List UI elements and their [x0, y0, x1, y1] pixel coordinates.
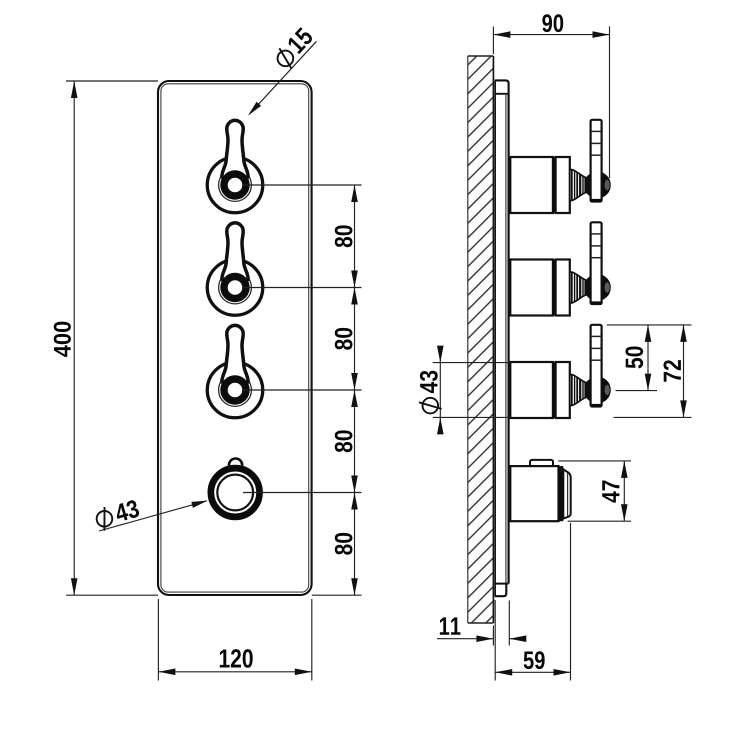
dim 50: extension lines — [607, 324, 692, 326]
dim dia43 (side): dimension line — [439, 347, 441, 434]
knob outer ring (front) — [211, 468, 260, 517]
cartridge band C2 — [553, 260, 556, 316]
cartridge cap C3 — [556, 362, 570, 418]
dim 400: extension lines — [66, 80, 158, 82]
ball B3 (side) — [584, 377, 610, 403]
plate front view outline — [158, 81, 312, 595]
dim 11: extension lines — [492, 626, 494, 646]
dim dia15 label — [272, 26, 317, 72]
dim 50: text — [625, 346, 643, 368]
dim 59: extension lines — [494, 600, 496, 681]
dim 11: dimension line + outside arrows — [437, 638, 493, 640]
knurl neck K1 (side) — [570, 170, 587, 201]
handle H1 ring — [224, 174, 246, 196]
dim dia15 leader — [250, 41, 317, 114]
lever bar L3 (side) — [591, 325, 602, 407]
handle H1 escutcheon circle — [207, 157, 263, 213]
knob disc fill — [208, 465, 263, 520]
cartridge body C1 (side) — [510, 157, 553, 213]
dim 50: dimension line — [647, 325, 649, 391]
handle H1 lever base thin circle — [219, 169, 252, 202]
dim 120: text — [220, 649, 253, 668]
lever bar L2 (side) — [591, 222, 602, 304]
plate side: bottom cap — [495, 584, 507, 597]
dim 400: dimension line — [73, 81, 75, 595]
dim 47: text — [602, 481, 619, 503]
handle H2 lever base thin circle — [219, 271, 252, 304]
knob inner thin circle (front) — [217, 475, 253, 511]
cartridge body C2 (side) — [510, 260, 553, 316]
handle H2 ring — [224, 277, 246, 299]
knob cap (side) — [563, 469, 570, 518]
handle H2 lever — [222, 223, 248, 280]
dim chain 80: texts — [335, 225, 353, 247]
ball B2 (side) — [584, 275, 610, 301]
dim 120: extension lines — [157, 599, 159, 681]
cartridge cap C2 — [556, 260, 570, 316]
handle H3 lever base thin circle — [219, 374, 252, 407]
plate front inner offset line — [161, 84, 309, 592]
handle H2 escutcheon circle — [207, 260, 263, 316]
dim 59: dimension line — [495, 671, 570, 673]
plate side: bottom step — [495, 583, 509, 585]
cartridge body C3 (side) — [510, 362, 553, 418]
knob dark band (side) — [559, 466, 564, 521]
knurl neck K2 (side) — [570, 272, 587, 303]
handle H3 lever — [222, 325, 248, 382]
dim 90: dimension line — [493, 34, 609, 36]
ball B1 (side) — [584, 172, 610, 198]
dim 90: text — [542, 14, 563, 32]
dim 120: dimension line — [158, 671, 311, 673]
plate side: inner thin line — [505, 94, 507, 584]
handle H3 ring — [224, 379, 246, 401]
dim dia43 (side): extension lines — [433, 362, 511, 364]
dim 72: dimension line — [683, 325, 685, 418]
cartridge band C1 — [553, 157, 556, 213]
plate side: top cap — [495, 80, 509, 93]
knob body (side) — [510, 466, 558, 521]
handle H3 escutcheon circle — [207, 362, 263, 418]
wall face line — [492, 56, 494, 623]
dim 72: text — [663, 360, 680, 382]
dim 72: extension line bottom — [614, 416, 692, 418]
dim 11: text — [440, 617, 461, 634]
dim dia43 (side): label — [419, 371, 442, 414]
wall section (hatched) — [468, 56, 494, 623]
plate side: back edge — [494, 80, 496, 596]
dim chain 80: extension lines from handle centers — [242, 184, 362, 186]
lever bar L1 (side) — [591, 120, 602, 202]
dim 47: extension lines — [558, 460, 631, 462]
dim chain 80: dimension line — [354, 185, 356, 595]
dim 47: dimension line — [623, 461, 625, 521]
dim 400: text — [54, 322, 71, 357]
dim 90: extension lines — [492, 27, 494, 55]
dim dia43 leader (front) — [99, 501, 207, 531]
cartridge cap C1 — [556, 157, 570, 213]
knob tab (side) — [530, 460, 553, 468]
cartridge band C3 — [553, 362, 556, 418]
dim 59: text — [524, 651, 545, 669]
knob nub (front) — [229, 459, 242, 472]
plate side: front face — [508, 94, 510, 584]
handle H1 lever — [222, 120, 248, 177]
knurl neck K3 (side) — [570, 375, 587, 406]
dim dia43 label (front) — [94, 498, 141, 532]
